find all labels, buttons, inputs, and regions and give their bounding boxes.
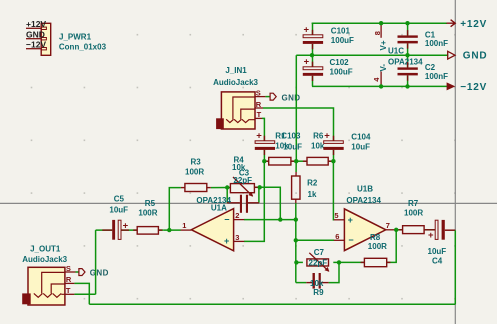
junction +12V/C1 [405,21,409,25]
capacitor C3 plates [240,195,242,213]
svg-text:+: + [324,131,330,142]
junction U1A output [167,228,171,232]
svg-text:22pF: 22pF [233,176,252,185]
svg-text:1: 1 [182,221,186,230]
capacitor C7 right stub [321,282,329,284]
wire J_IN1 tip to C103 [262,118,264,141]
wire node E down to C3 left [226,188,228,203]
svg-text:OPA2134: OPA2134 [196,196,231,205]
svg-text:GND: GND [282,94,301,103]
svg-text:2: 2 [235,211,239,220]
wire R6 right stub [328,160,333,162]
svg-text:+: + [256,131,262,142]
pin stubs maroon overlays [312,30,314,35]
svg-text:J_IN1: J_IN1 [225,66,247,75]
junction -12V/C2 [405,84,409,88]
wire node C vertical to U1B pin5 [332,161,335,220]
wire C5 left lead [96,229,113,231]
junction inverting bus top [294,217,298,221]
connector J_PWR1 pin 2 [26,38,41,40]
wire R7 right to C4 [424,229,435,231]
wire R2 bottom lead [295,199,297,204]
audio jack J_IN1 mount square [216,118,224,129]
wire U1B pin7 to R7 [396,229,402,231]
audio jack J_OUT1 ring contact [43,284,65,297]
svg-text:+: + [304,57,310,68]
junction node C R6/C104 [331,159,335,163]
svg-text:GND: GND [90,269,109,278]
svg-text:R6: R6 [313,131,324,140]
svg-text:OPA2134: OPA2134 [388,57,423,66]
hierarchical label -12V arrow [447,82,456,90]
junction +12V/pin8 [379,21,383,25]
sheet boundary vertical line [454,0,456,324]
junction -12V/pin4 [379,84,383,88]
junction U1A pin2 feedback [278,217,282,221]
wire C2 top lead [407,55,409,67]
pin 6 of U1B inverting [334,239,345,241]
resistor R3 [185,184,207,192]
resistor R6 [307,157,328,165]
svg-text:100R: 100R [404,209,423,218]
svg-text:AudioJack3: AudioJack3 [213,78,258,87]
pin T of J_OUT1 [65,293,75,295]
junction node A [262,159,266,163]
svg-text:+: + [348,215,353,225]
audio jack J_OUT1 body [28,267,65,305]
svg-text:−: − [348,235,353,245]
wire J_IN1 sleeve to GND label [265,96,270,98]
capacitor C104 plates [324,141,344,144]
pin S of J_OUT1 [65,271,76,273]
resistor R2 vertical [292,176,300,199]
svg-text:100R: 100R [185,168,204,177]
global label GND arrow at J_IN1 [270,93,276,100]
svg-text:R2: R2 [307,178,318,187]
svg-text:100nF: 100nF [425,72,448,81]
wire J_OUT1 tip to C5 column [74,293,95,295]
wire C7 right up to node Y [329,262,339,282]
svg-text:C4: C4 [432,257,443,266]
svg-text:8: 8 [373,31,382,35]
capacitor C103 plates [255,141,275,144]
connector J_PWR1 pin 1 [26,27,41,29]
wire GND vertical from rail to R1/R6 node [295,55,297,161]
op-amp U1A body [191,209,233,251]
audio jack J_IN1 body [221,92,255,129]
wire inverting bus vertical [295,220,297,283]
svg-text:R7: R7 [408,199,419,208]
capacitor C2 plates [398,67,418,69]
svg-text:100uF: 100uF [330,68,353,77]
capacitor C7 plates [313,273,315,289]
pin S of J_IN1 [255,96,266,98]
hierarchical label GND arrow [448,51,455,59]
audio jack J_OUT1 mount square [22,293,31,304]
svg-text:C101: C101 [331,26,351,35]
svg-text:AudioJack3: AudioJack3 [22,255,67,264]
pin 5 of U1B non-inverting [334,219,345,221]
wire J_OUT1 ring to bottom return [74,283,89,304]
svg-text:100R: 100R [368,242,387,251]
connector J_PWR1 body [41,23,51,55]
resistor R1 [269,157,291,165]
wire U1B pin6 row [296,239,334,241]
svg-text:C102: C102 [330,58,350,67]
svg-text:OPA2134: OPA2134 [346,196,381,205]
audio jack J_OUT1 tip contact [53,293,65,297]
wire R5 right stub [158,229,163,231]
resistor R9 adjust arrow [309,253,329,271]
svg-text:V+: V+ [379,40,388,50]
wire +12V rail [312,22,447,24]
junction node Y R9/C7 right [337,260,341,264]
wire C102 top lead [312,55,314,67]
svg-text:10uF: 10uF [351,143,370,152]
svg-text:Conn_01x03: Conn_01x03 [59,42,107,51]
op-amp U1B body [344,209,385,251]
svg-text:10k: 10k [311,142,325,151]
wire C3 right up to node F [258,187,260,203]
svg-text:C5: C5 [114,194,125,203]
svg-text:R3: R3 [191,158,202,167]
junction U1B output [394,228,398,232]
svg-text:R8: R8 [370,233,381,242]
pin R of J_IN1 [255,107,263,109]
svg-text:100nF: 100nF [425,39,448,48]
wire C1 top lead [407,23,409,35]
svg-text:+: + [304,25,310,36]
audio jack J_OUT1 sleeve contact [34,272,65,297]
svg-text:+12V: +12V [26,19,46,29]
wire C7 left corner [296,282,307,284]
junction GND/C101-C102 [310,53,314,57]
svg-text:V-: V- [379,64,388,72]
wire output return bottom [89,303,455,305]
svg-text:R: R [256,100,262,109]
wire R2 top lead [295,161,297,172]
capacitor C102 plates [303,67,323,70]
svg-text:R: R [66,275,72,284]
wire output return right vertical [454,230,456,304]
capacitor C1 plates [398,35,418,37]
svg-text:+12V: +12V [460,19,487,30]
svg-text:C103: C103 [281,131,301,140]
svg-text:U1C: U1C [388,46,404,55]
pin 1 of U1A output [181,229,192,231]
sheet boundary horizontal line [0,202,497,204]
svg-text:100R: 100R [138,209,157,218]
svg-text:+: + [428,230,434,241]
svg-text:J_PWR1: J_PWR1 [59,32,92,41]
svg-text:S: S [66,264,71,273]
audio jack J_IN1 tip contact [242,119,255,122]
wire C102 bottom lead [312,76,314,87]
wire C1 bottom lead [407,43,409,55]
connector J_PWR1 pin 1 notch [41,27,46,29]
wire R9 right stub [333,261,339,263]
connector J_PWR1 pin 3 [26,48,41,50]
wire C5 column vertical [95,230,97,294]
wire C101 bottom lead [312,44,314,55]
resistor R9 (variable) [307,259,329,266]
resistor R7 [403,226,425,234]
wire R3 right to node E [211,187,231,189]
pin 2 of U1A inverting [234,219,245,221]
wire R9 left stub [296,261,303,263]
wire C2 bottom lead [407,75,409,86]
svg-text:J_OUT1: J_OUT1 [30,244,61,253]
wire output node up to R3 left [169,188,181,231]
wire node F to U1A pin2 column [260,187,281,219]
svg-text:100uF: 100uF [331,36,354,45]
wire U1A output node [163,229,181,231]
svg-text:3: 3 [235,233,239,242]
capacitor C3 left stub [227,202,240,204]
svg-text:T: T [257,110,262,119]
wire C5 right to R5 [121,229,137,231]
svg-text:C104: C104 [351,132,371,141]
svg-text:C7: C7 [314,248,325,257]
svg-text:1k: 1k [308,190,317,199]
resistor R5 [137,227,158,235]
wire J_OUT1 sleeve to GND label [76,271,79,273]
junction U1B pin6 [294,238,298,242]
junction node E R3/R4 [225,185,229,189]
wire R1 left stub [264,160,268,162]
wire C104 bottom to node C [333,150,335,161]
wire -12V rail [312,85,447,87]
svg-text:10uF: 10uF [283,142,302,151]
audio jack J_IN1 ring contact [234,109,255,123]
junction GND/C1-C2 [405,53,409,57]
svg-text:−: − [224,214,229,224]
capacitor C4 plates [435,220,438,239]
wire C4 out to sheet edge [445,229,456,231]
wire GND rail [296,54,448,56]
svg-text:GND: GND [26,29,45,39]
resistor R8 [364,258,386,266]
capacitor C101 plates [303,35,323,38]
hierarchical label +12V arrow [447,20,456,27]
svg-text:T: T [66,286,71,295]
svg-text:R5: R5 [145,199,156,208]
wire U1A pin2 row [244,219,296,221]
pin 3 of U1A non-inverting [234,240,245,242]
svg-text:5: 5 [334,211,338,220]
junction R9/C7 left [294,260,298,264]
wire J_IN1 ring to C104 [263,108,334,141]
wire C103 bottom to node A [263,150,265,161]
wire node F to R4 right [254,186,259,188]
svg-text:S: S [256,88,261,97]
junction node F R4/C3 right [258,185,262,189]
capacitor C7 left stub [306,282,312,284]
connector J_PWR1 pin 2 notch [41,38,46,40]
wire node A vertical to U1A pin3 [244,161,264,241]
pin 7 of U1B output [386,229,397,231]
svg-text:−12V: −12V [460,82,487,93]
svg-text:−12V: −12V [26,39,46,49]
svg-text:U1B: U1B [357,184,373,193]
op-amp U1C power pin 4 [380,72,382,87]
resistor R4 (variable) [230,184,254,193]
svg-text:+: + [224,236,229,246]
wire C101 top lead [312,23,314,35]
svg-text:10uF: 10uF [109,206,128,215]
capacitor C3 right stub [248,202,259,204]
svg-text:6: 6 [335,232,339,241]
svg-text:10uF: 10uF [428,247,447,256]
wire R8 right to output column [387,230,397,263]
svg-text:22pF: 22pF [309,258,328,267]
junction node B R1/R6/R2 [294,159,298,163]
op-amp U1C power pin 8 [380,23,382,38]
wire node Y to R8 left [339,261,364,263]
wire R1 right stub [291,160,296,162]
connector J_PWR1 pin 3 notch [41,48,46,50]
svg-text:GND: GND [463,51,488,62]
pin R of J_OUT1 [65,282,75,284]
resistor R4 adjust arrow [233,177,253,196]
svg-text:R9: R9 [313,288,324,297]
svg-text:10k: 10k [310,279,324,288]
pin T of J_IN1 [255,117,262,119]
svg-text:7: 7 [386,221,390,230]
capacitor C5 plates [112,220,115,240]
wire R6 left stub [296,160,307,162]
global label GND arrow at J_OUT1 [79,269,85,276]
audio jack J_IN1 sleeve contact [226,97,255,123]
